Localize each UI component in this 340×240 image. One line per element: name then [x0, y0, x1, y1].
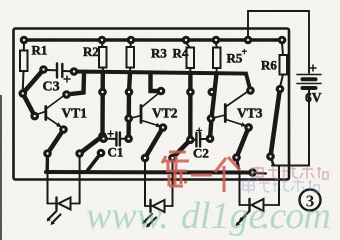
trace C3 to node A [23, 70, 44, 94]
capacitor C2 [194, 128, 207, 147]
trace R2 column down [100, 73, 105, 136]
node LED3 cathode top [232, 153, 241, 162]
figure number 3 circled [300, 190, 321, 211]
resistor R3 [127, 43, 135, 73]
node battery minus [266, 152, 275, 161]
node R5 col mid [208, 88, 217, 97]
transistor VT1 [37, 96, 64, 127]
node C3 left [39, 65, 48, 74]
node VT2 collector [157, 87, 166, 96]
capacitor C3 [47, 64, 71, 83]
trace R6 to battery minus pad [271, 88, 281, 157]
node VT1 collector [62, 90, 71, 99]
node R3 col mid [125, 88, 134, 97]
node C2 right [206, 134, 215, 143]
LED VD1 light arrows [47, 211, 61, 225]
node C1 left [99, 134, 108, 143]
watermark red big characters [162, 152, 240, 192]
node VT1 emitter [59, 125, 68, 134]
wire LED1 anode drop [79, 154, 81, 204]
node VT3 emitter [244, 123, 253, 132]
watermark red small characters [252, 166, 328, 181]
battery GB 6V [297, 75, 321, 89]
wire LED1 cathode drop [47, 173, 49, 204]
resistor R4 [186, 43, 194, 73]
node VT2 emitter [159, 123, 168, 132]
bottom rail [46, 170, 253, 175]
node R6 bottom [276, 85, 285, 94]
node VT3 collector [246, 86, 255, 95]
node LED2 cathode [141, 154, 150, 163]
LED VD3 light arrows [236, 212, 250, 227]
trace VT1 emitter to LED1 cathode pad [48, 130, 64, 154]
trace VT2 emitter to LED2 cathode pad [145, 128, 163, 159]
node A [19, 89, 28, 98]
node LED2 anode [168, 154, 177, 163]
capacitor C1 [107, 131, 125, 146]
LED VD1 [48, 198, 80, 210]
wire LED2 anode drop [172, 158, 174, 206]
LED VD2 light arrows [142, 214, 156, 228]
pads top rail [20, 36, 29, 45]
trace R4 column down to C2 left pad [188, 74, 192, 140]
node LED1 cathode [43, 149, 52, 158]
wire battery plus from top rail to battery [248, 11, 309, 73]
node R2 col bottom [98, 132, 107, 141]
scan edge artifact [0, 95, 2, 240]
node under C1 [97, 149, 106, 158]
trace VT3 emitter to LED3 pad [237, 127, 249, 157]
node C1 right [124, 134, 133, 143]
node VT1 base [30, 112, 39, 121]
resistor R1 [20, 43, 28, 90]
wire LED2 cathode drop [144, 158, 146, 206]
node LED1 anode [75, 149, 84, 158]
trace battery minus pad stub [271, 157, 274, 166]
trace R3 column down to C1 right pad [129, 73, 130, 139]
trace LED1 cathode pad to bottom rail [46, 154, 50, 172]
node R4 col mid [186, 88, 195, 97]
node R2 col mid [98, 88, 107, 97]
wire LED3 cathode drop [239, 174, 241, 205]
trace VT1 collector L to rail [67, 74, 85, 95]
watermark blue small characters [243, 179, 319, 193]
trace C2 left pad to LED2 anode pad [173, 140, 191, 158]
transistor VT3 [214, 92, 247, 126]
board outline [14, 29, 290, 180]
node VT3 base [207, 114, 216, 123]
node dash at rail end [257, 172, 266, 175]
LED VD3 [240, 199, 280, 211]
resistor R5 [213, 43, 221, 73]
resistor R6 [280, 43, 288, 86]
node rail right end [248, 168, 257, 177]
node VT2 base [124, 114, 133, 123]
node C3 right [70, 67, 79, 76]
transistor VT2 [131, 93, 161, 127]
wire rail y73 collector bus [74, 72, 250, 91]
trace LED3 pad stub to rail [237, 158, 239, 169]
trace node A to VT1 base pad [23, 93, 35, 116]
node C2 left [186, 136, 195, 145]
wire LED3 anode drop [278, 166, 280, 206]
resistor R2 [99, 43, 107, 73]
trace node under C1 to bottom rail [88, 153, 102, 171]
top rail [24, 38, 282, 42]
trace VT2 collector L to rail [151, 75, 162, 92]
wire battery minus down right side [272, 88, 309, 166]
LED VD2 [145, 200, 173, 212]
trace R2 column to LED1 anode pad [80, 136, 103, 154]
trace R5 column down to C2 right pad [210, 74, 217, 139]
